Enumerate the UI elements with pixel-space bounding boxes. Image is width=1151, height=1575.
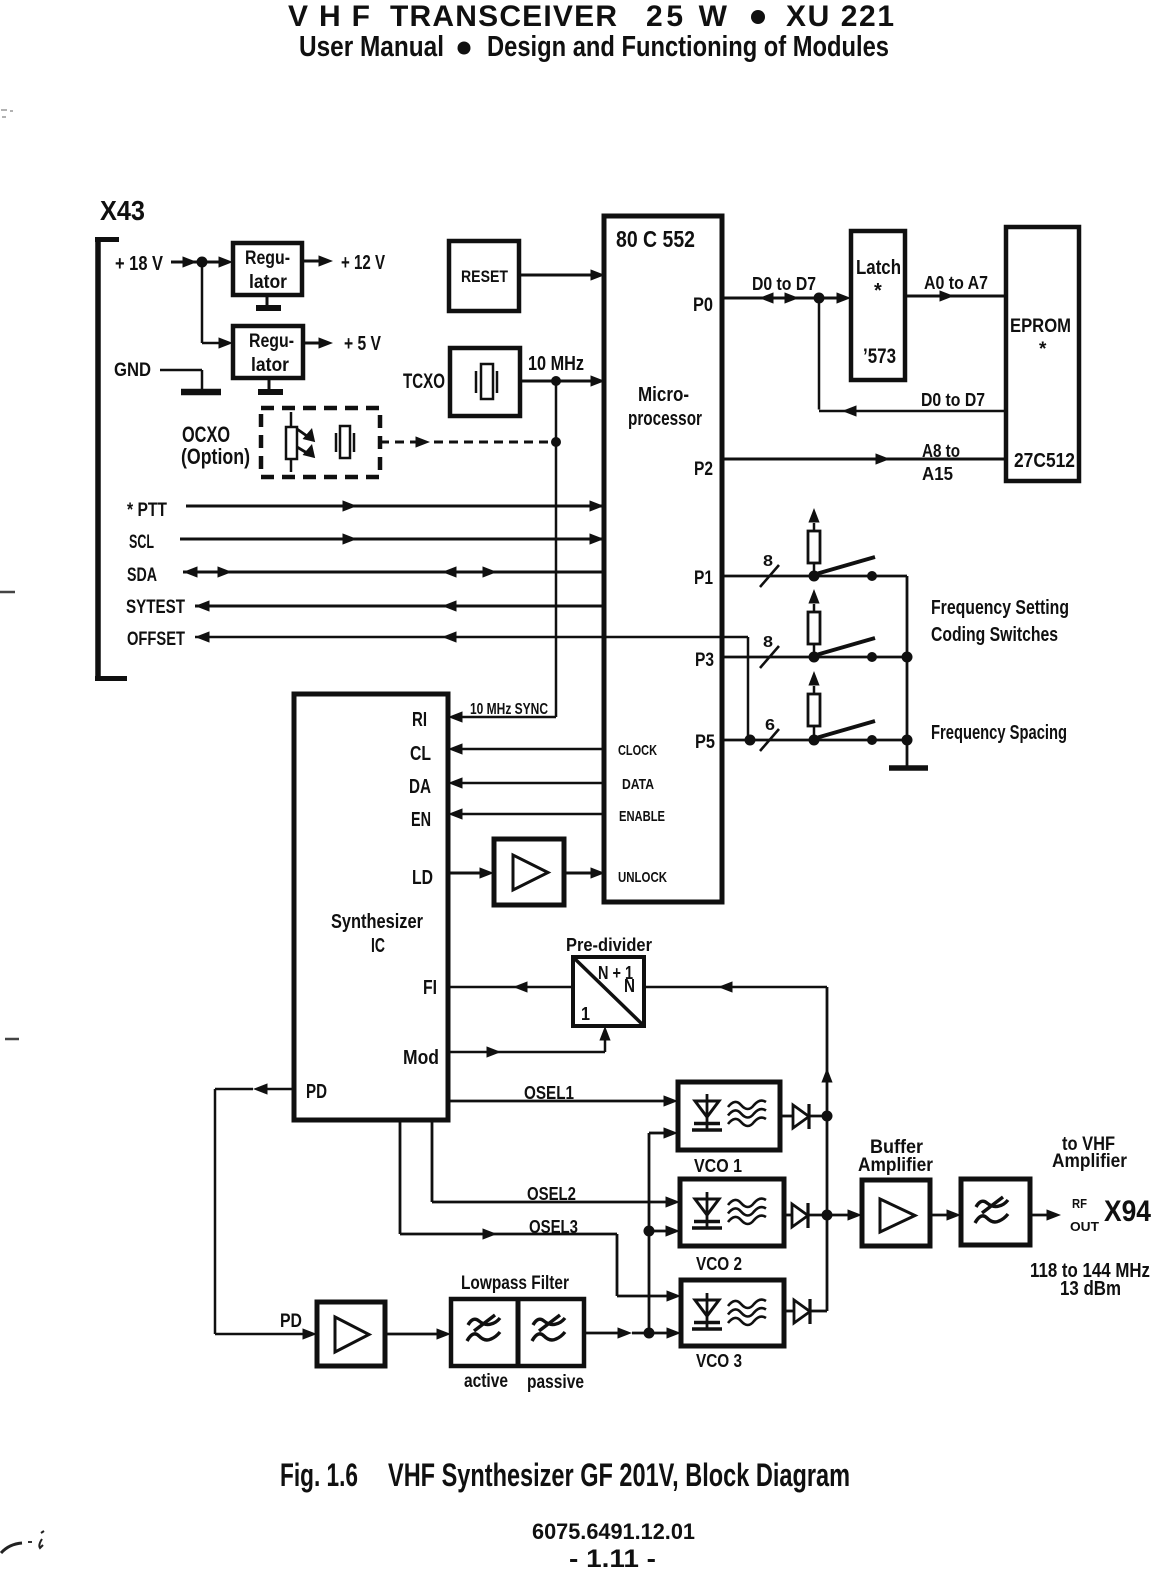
resonator VCO1 (728, 1101, 766, 1126)
pre-divider N/N+1 box (573, 957, 644, 1026)
wire OCXO dashed output (380, 436, 552, 447)
label 118 to 144 MHz / 13 dBm (1030, 1260, 1150, 1300)
svg-text:P0: P0 (693, 295, 713, 316)
wire A0-A7 latch to EPROM (905, 290, 1006, 301)
wire ENABLE to EN (448, 808, 604, 819)
svg-text:VHF: VHF (288, 0, 370, 33)
svg-text:FI: FI (423, 977, 437, 999)
svg-text:- 1.11 -: - 1.11 - (569, 1545, 656, 1573)
oscillator OCXO (Option) label (181, 422, 250, 469)
svg-text:Synthesizer: Synthesizer (331, 911, 423, 933)
svg-text:IC: IC (371, 935, 385, 957)
svg-text:X94: X94 (1104, 1195, 1151, 1228)
wire buffer to output filter (930, 1209, 961, 1220)
svg-text:Pre-divider: Pre-divider (566, 935, 652, 955)
svg-text:EPROM: EPROM (1010, 316, 1071, 337)
svg-text:*: * (1039, 339, 1047, 360)
wire SYTEST (195, 600, 604, 611)
svg-text:VCO 3: VCO 3 (696, 1351, 742, 1371)
wire switch to ground bus row y=576 (872, 575, 907, 578)
svg-text:VHF Synthesizer GF 201V, Block: VHF Synthesizer GF 201V, Block Diagram (388, 1457, 850, 1493)
junction common P3 (902, 652, 913, 663)
label Frequency Setting Coding Switches (931, 597, 1069, 646)
svg-text:UNLOCK: UNLOCK (618, 869, 667, 886)
svg-text:Lowpass Filter: Lowpass Filter (461, 1273, 569, 1294)
svg-text:CLOCK: CLOCK (618, 742, 657, 759)
diode VCO2 (792, 1203, 808, 1228)
switch row y=657 (816, 638, 875, 655)
svg-text:PD: PD (306, 1081, 327, 1103)
varactor VCO1 (692, 1094, 722, 1130)
figure caption (280, 1457, 850, 1493)
svg-text:Latch: Latch (856, 257, 901, 279)
svg-text:Mod: Mod (403, 1047, 439, 1069)
wire LD to lock amp (448, 867, 494, 878)
switch contact dot row y=576 (867, 571, 877, 581)
junction P0 bus (814, 293, 825, 304)
svg-text:*: * (874, 280, 882, 302)
junction VCO1 common (822, 1111, 833, 1122)
svg-text:PD: PD (280, 1311, 302, 1332)
junction tuning line VCO2 (644, 1226, 655, 1237)
svg-text:VCO 2: VCO 2 (696, 1254, 742, 1274)
svg-text:LD: LD (412, 867, 433, 889)
ground regulator2 (258, 378, 283, 392)
svg-text:ENABLE: ENABLE (619, 808, 665, 825)
wire OSEL3 (400, 1120, 681, 1302)
scan artifact marks (decorative) (0, 110, 44, 1553)
filter symbol passive cell (532, 1315, 565, 1341)
wire regulator2 output (305, 337, 333, 348)
wire VCO1 output (780, 1115, 793, 1118)
wire P-port to switch row y=657 (722, 656, 872, 659)
wire diode3 to common (811, 1310, 827, 1313)
svg-text:Amplifier: Amplifier (1052, 1151, 1128, 1172)
wire SCL (180, 533, 604, 544)
junction OFFSET on P5 line (745, 735, 756, 746)
wire PTT (186, 500, 604, 511)
latch U2 573 box (851, 231, 905, 380)
wire 10MHz sync to RI (448, 711, 556, 722)
svg-text:SCL: SCL (129, 532, 154, 553)
svg-text:passive: passive (527, 1372, 584, 1393)
wire VCO3 output (784, 1310, 794, 1313)
svg-text:OUT: OUT (1070, 1219, 1099, 1234)
svg-text:D0 to D7: D0 to D7 (752, 274, 816, 294)
synthesizer IC U4 box (294, 694, 448, 1120)
amplifier lock detector (494, 839, 564, 905)
svg-text:6075.6491.12.01: 6075.6491.12.01 (532, 1519, 695, 1544)
wire Mod to pre-divider (448, 1026, 611, 1058)
svg-text:lator: lator (249, 272, 288, 293)
wire DATA to DA (448, 777, 604, 788)
resistor pull-up row y=740 (808, 671, 820, 740)
svg-text:25 W: 25 W (646, 0, 728, 33)
svg-text:Frequency Spacing: Frequency Spacing (931, 722, 1067, 744)
filter output lowpass (961, 1179, 1030, 1245)
ground switch common (889, 765, 928, 771)
wire PD output loop (215, 1083, 317, 1339)
switch contact dot row y=657 (867, 652, 877, 662)
svg-text:+ 18 V: + 18 V (115, 253, 164, 275)
wire regulator1 output (302, 255, 333, 266)
svg-text:’573: ’573 (863, 345, 896, 368)
svg-text:X43: X43 (100, 195, 145, 226)
wire diode1 to common (810, 1115, 827, 1118)
resistor pull-up row y=657 (808, 589, 820, 657)
filter lowpass active/passive box (451, 1299, 584, 1366)
label Buffer Amplifier (858, 1137, 934, 1176)
wire switch common vertical (906, 576, 909, 766)
ground GND symbol (181, 389, 221, 396)
svg-text:Micro-: Micro- (638, 384, 689, 406)
trimmer in OCXO (286, 412, 318, 472)
wire RESET to microprocessor (519, 269, 605, 280)
svg-text:* PTT: * PTT (127, 500, 167, 521)
VCO 2 box (680, 1179, 784, 1246)
svg-text:D0 to D7: D0 to D7 (921, 390, 985, 410)
wire P2 address bus A8-A15 (722, 453, 1006, 464)
switch contact dot row y=740 (867, 735, 877, 745)
svg-text:DA: DA (409, 776, 431, 798)
svg-text:Fig. 1.6: Fig. 1.6 (280, 1457, 358, 1493)
svg-text:A0 to A7: A0 to A7 (924, 273, 988, 293)
wire P0 data bus (722, 292, 851, 303)
amplifier PD active (317, 1302, 385, 1366)
svg-text:P2: P2 (694, 459, 713, 480)
net A8 to A15 label (922, 441, 960, 484)
wire tuning to VCO2 input (649, 1225, 680, 1236)
svg-text:CL: CL (410, 743, 431, 765)
ground regulator1 (256, 295, 281, 308)
junction resistor row y=740 (809, 735, 820, 746)
EPROM U3 box (1006, 227, 1079, 481)
wire 10MHz sync vertical (555, 381, 558, 717)
regulator +5V (233, 326, 303, 378)
wire switch to ground bus row y=740 (872, 739, 907, 742)
varactor VCO3 (692, 1293, 722, 1329)
junction VCO2 common (822, 1210, 833, 1221)
svg-text:+ 12 V: + 12 V (341, 252, 385, 274)
svg-text:RF: RF (1072, 1196, 1087, 1211)
varactor VCO2 (692, 1192, 722, 1228)
label to VHF Amplifier (1052, 1134, 1128, 1172)
svg-text:(Option): (Option) (181, 444, 250, 469)
wire common to buffer (827, 1209, 862, 1220)
svg-text:Amplifier: Amplifier (858, 1155, 934, 1176)
junction +18V (197, 257, 208, 268)
junction resistor row y=576 (809, 571, 820, 582)
connector X43 bracket (95, 237, 127, 681)
svg-text:27C512: 27C512 (1014, 450, 1075, 472)
page title (288, 0, 894, 33)
wire switch to ground bus row y=657 (872, 656, 907, 659)
resistor pull-up row y=576 (808, 508, 820, 576)
svg-text:Coding Switches: Coding Switches (931, 624, 1058, 646)
switch row y=576 (816, 557, 875, 574)
svg-text:P3: P3 (695, 650, 714, 671)
svg-text:1: 1 (581, 1004, 590, 1024)
junction 10MHz (551, 376, 561, 386)
junction tuning line VCO3 (644, 1328, 655, 1339)
svg-text:A15: A15 (922, 464, 953, 484)
wire P-port to switch row y=576 (722, 575, 872, 578)
wire VCO feedback to pre-divider (644, 981, 827, 992)
wire SDA bidirectional (183, 566, 604, 577)
svg-text:Frequency Setting: Frequency Setting (931, 597, 1069, 619)
bus width marker 8 (760, 634, 779, 668)
diode VCO1 (793, 1104, 809, 1129)
wire TCXO output 10MHz (520, 375, 605, 386)
VCO 1 box (678, 1082, 780, 1150)
svg-text:RESET: RESET (461, 267, 509, 286)
bus width marker 8 (760, 553, 779, 587)
svg-text:User Manual: User Manual (299, 31, 444, 63)
wire GND (160, 370, 202, 389)
vco common output vertical (821, 987, 832, 1311)
bus width marker 6 (760, 717, 779, 751)
svg-text:P1: P1 (694, 568, 713, 589)
svg-text:8: 8 (763, 634, 773, 651)
microprocessor U1 80C552 box (604, 216, 722, 902)
wire VCO2 output (784, 1214, 792, 1217)
wire OSEL1 (448, 1095, 678, 1106)
svg-text:A8 to: A8 to (922, 441, 960, 461)
wire tuning to VCO1 input (649, 1127, 678, 1138)
reset generator box (449, 241, 519, 311)
wire tuning bus vertical (648, 1133, 651, 1333)
wire pre-divider to FI (448, 981, 573, 992)
svg-text:SDA: SDA (127, 565, 157, 586)
wire RF output (1030, 1209, 1061, 1220)
switch row y=740 (816, 721, 875, 738)
svg-text:10 MHz SYNC: 10 MHz SYNC (470, 701, 548, 718)
wire +18V to regulators (171, 256, 233, 267)
resonator VCO2 (728, 1199, 766, 1224)
svg-text:VCO 1: VCO 1 (694, 1156, 742, 1176)
svg-text:GND: GND (114, 359, 151, 381)
oscillator OCXO dashed box (261, 408, 380, 477)
svg-text:6: 6 (765, 717, 775, 734)
wire CLOCK to CL (448, 743, 604, 754)
wire OFFSET (195, 631, 748, 740)
junction resistor row y=657 (809, 652, 820, 663)
svg-text:Regu-: Regu- (245, 248, 290, 269)
svg-text:8: 8 (763, 553, 773, 570)
junction common P5 (902, 735, 913, 746)
svg-text:DATA: DATA (622, 776, 654, 793)
svg-text:Design and Functioning of Modu: Design and Functioning of Modules (487, 31, 889, 63)
wire OSEL2 (432, 1120, 680, 1208)
page subtitle (299, 31, 889, 63)
wire diode2 to common (809, 1214, 827, 1217)
wire lock amp to UNLOCK (564, 867, 605, 878)
filter symbol active cell (467, 1315, 500, 1341)
svg-text:OFFSET: OFFSET (127, 629, 185, 650)
amplifier buffer (862, 1180, 930, 1246)
resonator VCO3 (728, 1300, 766, 1325)
svg-text:TRANSCEIVER: TRANSCEIVER (390, 0, 617, 33)
svg-text:10 MHz: 10 MHz (528, 353, 584, 375)
svg-text:SYTEST: SYTEST (126, 597, 185, 618)
crystal in OCXO (336, 426, 354, 458)
svg-text:+ 5 V: + 5 V (344, 333, 382, 355)
svg-text:N: N (624, 976, 635, 996)
pin RF OUT labels (1070, 1196, 1099, 1234)
svg-text:TCXO: TCXO (403, 370, 445, 393)
svg-text:Regu-: Regu- (249, 331, 294, 352)
svg-text:active: active (464, 1371, 508, 1392)
VCO 3 box (681, 1280, 784, 1346)
svg-text:P5: P5 (695, 732, 715, 753)
wire lowpass to VCO tuning line (584, 1327, 681, 1338)
svg-text:processor: processor (628, 408, 702, 430)
diode VCO3 (794, 1299, 810, 1324)
svg-text:XU 221: XU 221 (786, 0, 894, 33)
regulator +12V (233, 243, 302, 295)
svg-text:RI: RI (412, 709, 427, 731)
oscillator TCXO box (450, 348, 520, 416)
svg-text:13 dBm: 13 dBm (1060, 1278, 1121, 1300)
wire PD amp to lowpass filter (385, 1328, 451, 1339)
wire +18V branch down to 5V regulator (202, 262, 233, 349)
svg-text:80 C 552: 80 C 552 (616, 226, 695, 252)
svg-text:lator: lator (251, 355, 290, 376)
wire P-port to switch row y=740 (722, 739, 872, 742)
junction OCXO/10MHz (551, 437, 561, 447)
wire D0-D7 EPROM return (819, 298, 1006, 417)
svg-text:EN: EN (411, 809, 431, 831)
